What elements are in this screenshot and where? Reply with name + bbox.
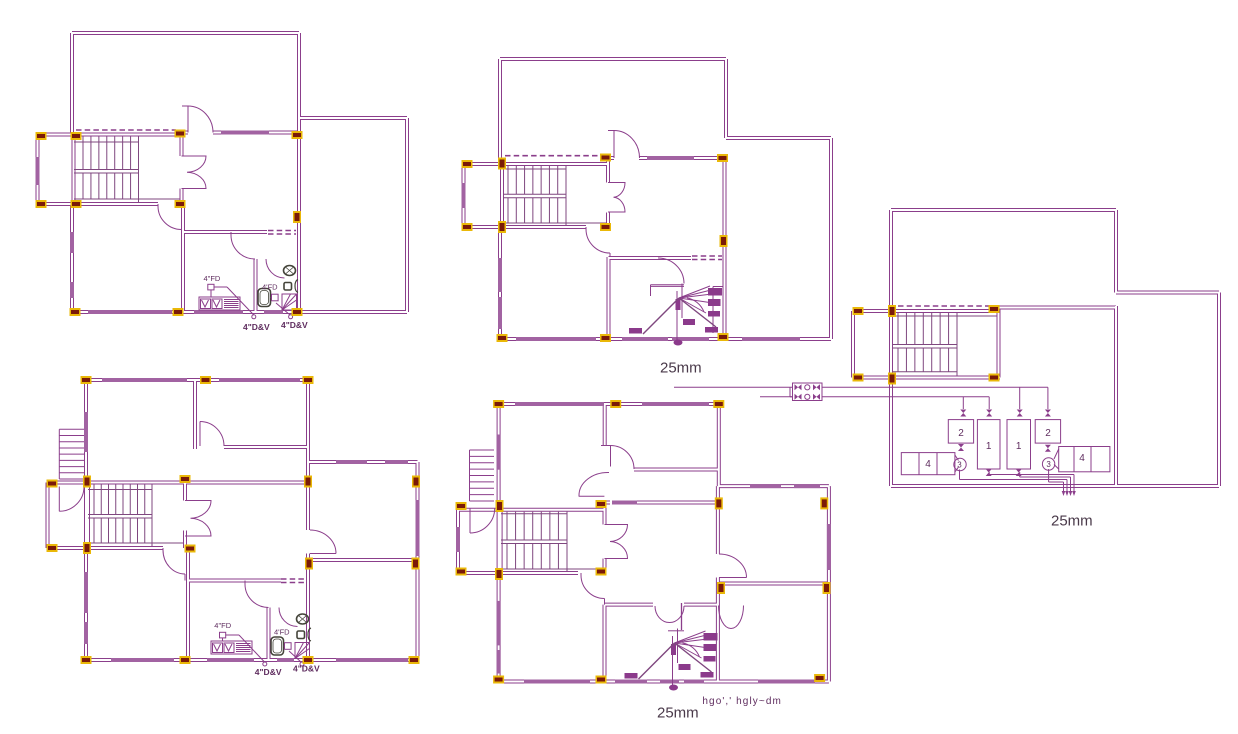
svg-text:4'FD: 4'FD — [274, 628, 290, 637]
svg-text:2: 2 — [1045, 428, 1051, 439]
svg-text:4"D&V: 4"D&V — [281, 320, 308, 330]
svg-text:4"D&V: 4"D&V — [293, 664, 320, 674]
svg-text:25mm: 25mm — [1051, 513, 1093, 530]
svg-text:4'FD: 4'FD — [262, 283, 278, 292]
svg-text:4: 4 — [925, 459, 931, 470]
svg-text:2: 2 — [958, 428, 964, 439]
svg-text:hgo',' hgly~dm: hgo',' hgly~dm — [702, 696, 782, 707]
svg-text:4"D&V: 4"D&V — [243, 322, 270, 332]
svg-text:4"FD: 4"FD — [204, 274, 221, 283]
svg-text:4: 4 — [1079, 453, 1085, 464]
svg-text:3: 3 — [1046, 460, 1051, 469]
svg-text:25mm: 25mm — [660, 360, 702, 377]
svg-text:4"D&V: 4"D&V — [255, 667, 282, 677]
svg-text:1: 1 — [986, 441, 992, 452]
svg-text:25mm: 25mm — [657, 705, 699, 722]
svg-text:4"FD: 4"FD — [214, 621, 231, 630]
svg-text:1: 1 — [1016, 441, 1022, 452]
